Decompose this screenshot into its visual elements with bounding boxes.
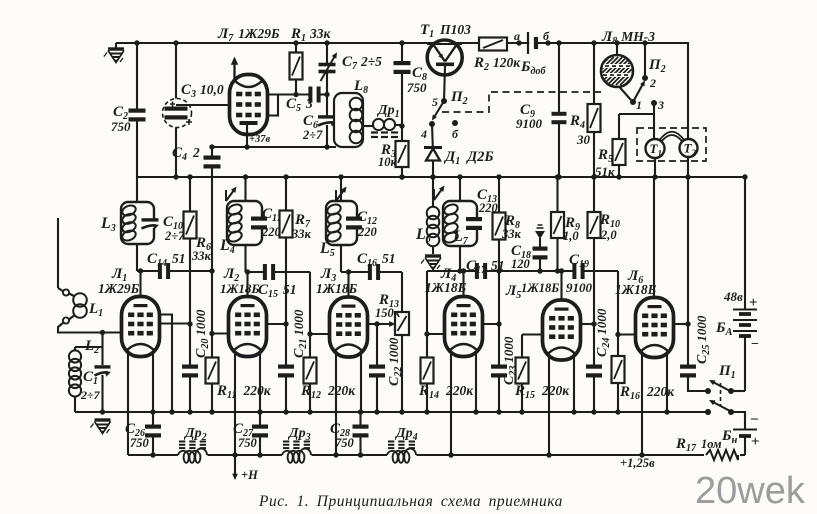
svg-text:750: 750 — [335, 436, 355, 450]
svg-text:220: 220 — [261, 225, 282, 239]
svg-text:750: 750 — [238, 436, 258, 450]
svg-text:48в: 48в — [723, 289, 743, 304]
svg-text:1Ж18Б: 1Ж18Б — [521, 281, 559, 295]
svg-text:Д1Д2Б: Д1Д2Б — [443, 149, 494, 167]
svg-text:+37в: +37в — [249, 134, 270, 145]
svg-text:51к: 51к — [595, 164, 615, 179]
svg-text:+1,25в: +1,25в — [620, 456, 655, 470]
svg-text:220: 220 — [478, 201, 499, 215]
svg-text:2÷7: 2÷7 — [164, 229, 185, 243]
svg-text:5: 5 — [432, 95, 438, 109]
svg-text:1: 1 — [658, 149, 663, 159]
svg-text:2: 2 — [649, 76, 656, 90]
svg-text:10к: 10к — [378, 155, 398, 169]
svg-text:1Ж18Б: 1Ж18Б — [615, 282, 657, 297]
svg-text:9100: 9100 — [516, 116, 543, 131]
svg-text:1Ж29Б: 1Ж29Б — [98, 281, 140, 296]
svg-text:а: а — [514, 29, 520, 43]
svg-text:2÷7: 2÷7 — [302, 128, 323, 142]
svg-text:1,0: 1,0 — [563, 229, 579, 243]
svg-text:+Н: +Н — [241, 468, 259, 482]
svg-text:4: 4 — [420, 127, 427, 141]
svg-text:+: + — [751, 434, 760, 450]
svg-text:220: 220 — [357, 225, 378, 239]
svg-text:33к: 33к — [291, 227, 312, 241]
svg-text:+: + — [749, 295, 758, 311]
svg-text:20wek: 20wek — [695, 470, 806, 512]
svg-text:150к: 150к — [375, 306, 401, 320]
svg-text:б: б — [452, 127, 459, 141]
svg-text:1Ж18Б: 1Ж18Б — [316, 281, 358, 296]
svg-text:1: 1 — [636, 98, 642, 112]
svg-text:Рис. 1. Принципиальная схема п: Рис. 1. Принципиальная схема приемника — [258, 493, 563, 510]
svg-text:1Ж18Б: 1Ж18Б — [220, 281, 260, 296]
svg-text:2,0: 2,0 — [600, 228, 617, 242]
svg-text:33к: 33к — [191, 249, 212, 263]
svg-text:30: 30 — [576, 132, 591, 147]
svg-text:2÷7: 2÷7 — [80, 388, 101, 402]
svg-text:750: 750 — [407, 80, 427, 95]
svg-text:3: 3 — [657, 98, 664, 112]
svg-text:750: 750 — [111, 119, 131, 134]
svg-text:1Ж18Б: 1Ж18Б — [425, 280, 467, 295]
svg-text:750: 750 — [130, 436, 150, 450]
svg-text:−: − — [750, 412, 759, 428]
svg-text:б: б — [543, 29, 550, 43]
svg-text:33к: 33к — [501, 227, 522, 241]
svg-text:2: 2 — [691, 148, 697, 158]
svg-text:−: − — [751, 337, 759, 352]
svg-text:9100: 9100 — [566, 280, 593, 295]
svg-text:120: 120 — [511, 257, 531, 271]
